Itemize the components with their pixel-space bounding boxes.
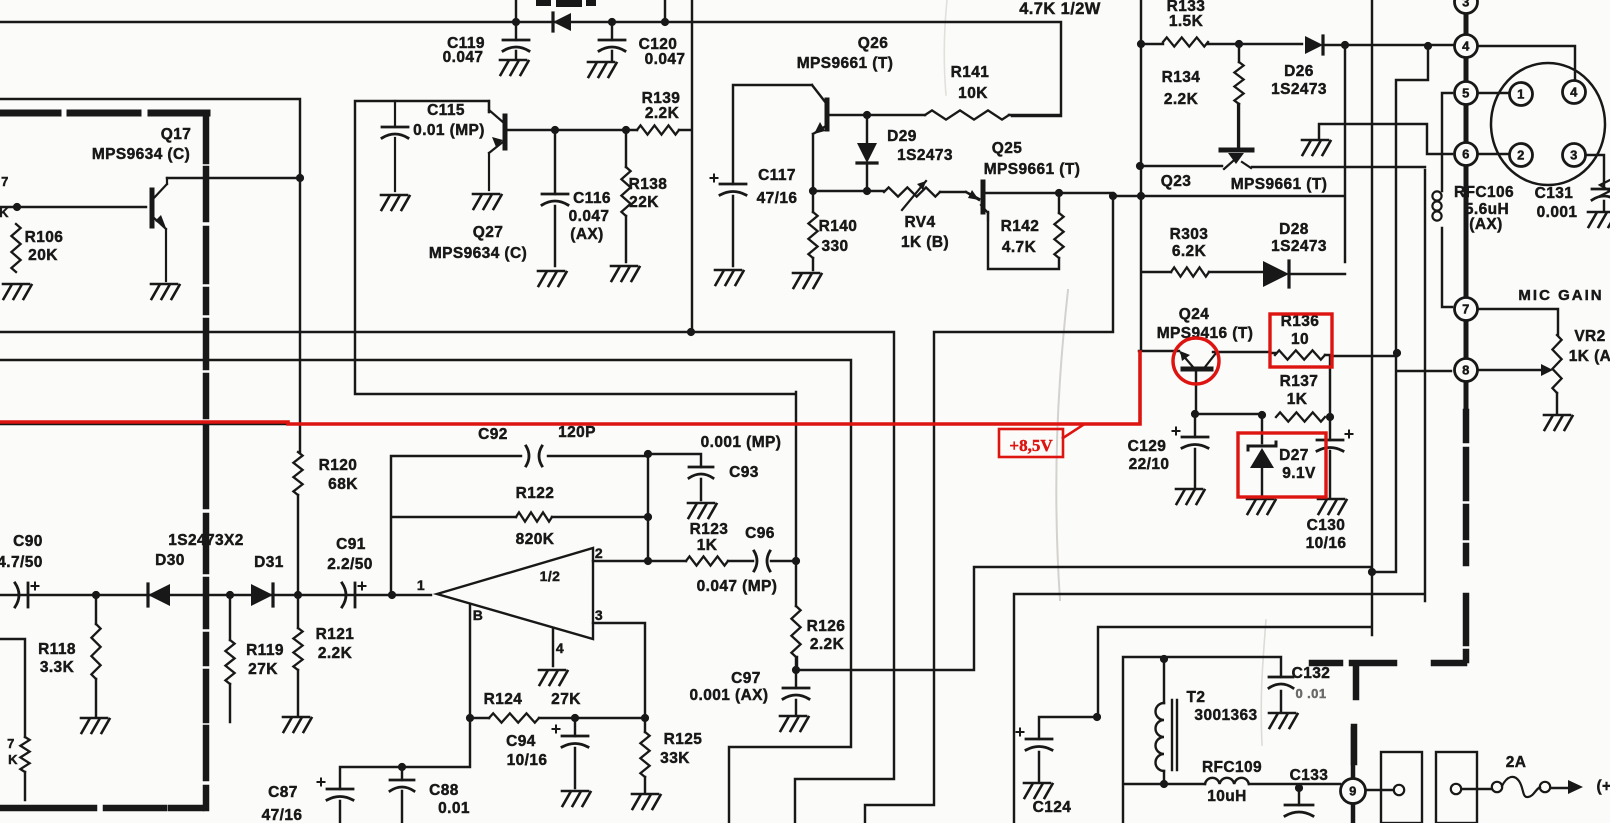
svg-text:2A: 2A (1506, 754, 1527, 771)
svg-text:Q27: Q27 (473, 224, 504, 241)
svg-text:0.047 (MP): 0.047 (MP) (697, 578, 778, 595)
svg-text:1K: 1K (697, 537, 718, 554)
svg-text:1.5K: 1.5K (1169, 13, 1204, 30)
svg-text:D28: D28 (1279, 221, 1309, 238)
svg-text:R140: R140 (819, 218, 858, 235)
svg-text:C91: C91 (336, 536, 366, 553)
svg-text:R141: R141 (951, 64, 990, 81)
svg-text:R134: R134 (1162, 69, 1201, 86)
svg-text:3: 3 (1570, 148, 1578, 163)
svg-text:RFC109: RFC109 (1202, 759, 1262, 776)
svg-text:D30: D30 (155, 552, 185, 569)
svg-text:Q17: Q17 (161, 126, 192, 143)
svg-text:R106: R106 (25, 229, 64, 246)
svg-text:6.2K: 6.2K (1172, 243, 1207, 260)
svg-text:Q25: Q25 (992, 140, 1023, 157)
svg-text:2.2K: 2.2K (645, 105, 680, 122)
svg-text:10/16: 10/16 (1306, 535, 1347, 552)
svg-text:R118: R118 (38, 641, 76, 658)
svg-text:7: 7 (7, 736, 15, 751)
svg-text:0.001 (AX): 0.001 (AX) (690, 687, 769, 704)
svg-text:R123: R123 (690, 521, 729, 538)
svg-text:R124: R124 (484, 691, 523, 708)
svg-text:C88: C88 (429, 782, 459, 799)
svg-text:C115: C115 (427, 102, 465, 119)
svg-text:0 .01: 0 .01 (1296, 686, 1327, 701)
svg-text:47/16: 47/16 (757, 190, 798, 207)
svg-text:D27: D27 (1279, 447, 1309, 464)
svg-text:K: K (0, 205, 9, 220)
svg-text:1: 1 (417, 577, 425, 593)
svg-text:47/16: 47/16 (262, 807, 303, 823)
svg-text:C117: C117 (758, 167, 796, 184)
svg-text:6: 6 (1462, 147, 1470, 162)
svg-text:1/2: 1/2 (540, 568, 561, 584)
svg-text:C90: C90 (13, 533, 43, 550)
svg-text:2.2K: 2.2K (1164, 91, 1199, 108)
svg-text:MPS9661 (T): MPS9661 (T) (797, 55, 894, 72)
svg-text:1K (B): 1K (B) (901, 234, 949, 251)
svg-text:R137: R137 (1280, 373, 1319, 390)
svg-text:4.7K 1/2W: 4.7K 1/2W (1019, 0, 1101, 18)
svg-text:C97: C97 (731, 670, 761, 687)
svg-text:+8,5V: +8,5V (1009, 436, 1053, 455)
svg-text:C132: C132 (1292, 665, 1331, 682)
svg-text:0.047: 0.047 (443, 49, 484, 66)
svg-text:MPS9661 (T): MPS9661 (T) (984, 161, 1081, 178)
svg-text:MPS9661 (T): MPS9661 (T) (1231, 176, 1328, 193)
svg-text:3: 3 (1462, 0, 1470, 10)
svg-text:68K: 68K (328, 476, 358, 493)
svg-text:9: 9 (1349, 784, 1357, 799)
svg-text:1S2473X2: 1S2473X2 (168, 532, 244, 549)
svg-text:9.1V: 9.1V (1282, 465, 1316, 482)
svg-text:10K: 10K (958, 85, 988, 102)
svg-text:(AX): (AX) (1469, 216, 1502, 233)
svg-text:RV4: RV4 (904, 214, 935, 231)
svg-text:27K: 27K (551, 691, 581, 708)
svg-text:D26: D26 (1284, 63, 1314, 80)
svg-text:R126: R126 (807, 618, 846, 635)
svg-text:1S2473: 1S2473 (1271, 238, 1327, 255)
svg-text:MPS9634 (C): MPS9634 (C) (429, 245, 527, 262)
svg-text:Q26: Q26 (858, 35, 889, 52)
svg-text:R122: R122 (516, 485, 555, 502)
svg-text:R125: R125 (664, 731, 703, 748)
svg-text:C87: C87 (268, 784, 298, 801)
svg-text:C93: C93 (729, 464, 759, 481)
svg-text:Q24: Q24 (1179, 306, 1210, 323)
svg-text:0.01 (MP): 0.01 (MP) (413, 122, 485, 139)
svg-text:10: 10 (1291, 331, 1309, 348)
svg-text:3.3K: 3.3K (40, 659, 75, 676)
svg-text:4.7K: 4.7K (1002, 239, 1037, 256)
svg-text:R121: R121 (316, 626, 355, 643)
svg-text:K: K (8, 752, 18, 767)
svg-text:4.7/50: 4.7/50 (0, 554, 43, 571)
svg-text:0.01: 0.01 (438, 800, 470, 817)
svg-text:0.047: 0.047 (569, 208, 610, 225)
svg-text:20K: 20K (28, 247, 58, 264)
svg-text:R142: R142 (1001, 218, 1040, 235)
svg-text:2.2/50: 2.2/50 (327, 556, 373, 573)
svg-text:C116: C116 (573, 190, 611, 207)
svg-text:4: 4 (556, 640, 564, 656)
svg-text:22/10: 22/10 (1129, 456, 1170, 473)
svg-text:D31: D31 (254, 554, 284, 571)
svg-text:0.001 (MP): 0.001 (MP) (701, 434, 782, 451)
svg-text:2: 2 (1517, 148, 1525, 163)
svg-text:C131: C131 (1535, 185, 1574, 202)
svg-text:27K: 27K (248, 661, 278, 678)
svg-text:1K: 1K (1287, 391, 1308, 408)
svg-text:R303: R303 (1170, 226, 1209, 243)
svg-text:C129: C129 (1128, 438, 1167, 455)
svg-text:1K (A: 1K (A (1569, 348, 1610, 365)
svg-text:3: 3 (595, 607, 603, 623)
svg-text:330: 330 (821, 238, 848, 255)
svg-text:820K: 820K (516, 531, 555, 548)
svg-text:C130: C130 (1307, 517, 1346, 534)
svg-text:MIC GAIN: MIC GAIN (1518, 287, 1603, 304)
svg-text:C133: C133 (1290, 767, 1329, 784)
svg-text:7: 7 (1462, 302, 1470, 317)
svg-text:Q23: Q23 (1161, 173, 1192, 190)
svg-text:4: 4 (1462, 39, 1470, 54)
svg-text:120P: 120P (558, 424, 596, 441)
svg-text:0.001: 0.001 (1537, 204, 1578, 221)
svg-text:T2: T2 (1187, 689, 1206, 706)
svg-text:4: 4 (1570, 85, 1578, 100)
svg-text:(AX): (AX) (570, 226, 603, 243)
svg-text:3001363: 3001363 (1194, 707, 1257, 724)
svg-text:R119: R119 (246, 642, 284, 659)
svg-text:D29: D29 (887, 128, 917, 145)
svg-text:1S2473: 1S2473 (1271, 81, 1327, 98)
svg-text:C94: C94 (506, 733, 536, 750)
svg-text:7: 7 (1, 174, 9, 189)
svg-text:1S2473: 1S2473 (897, 147, 953, 164)
svg-text:(+: (+ (1596, 778, 1610, 795)
svg-text:0.047: 0.047 (645, 51, 686, 68)
svg-text:33K: 33K (660, 750, 690, 767)
svg-text:RFC106: RFC106 (1454, 184, 1514, 201)
svg-text:2.2K: 2.2K (810, 636, 845, 653)
svg-text:VR2: VR2 (1574, 328, 1605, 345)
svg-text:MPS9634 (C): MPS9634 (C) (92, 146, 190, 163)
svg-text:C124: C124 (1033, 799, 1072, 816)
svg-text:R138: R138 (629, 176, 668, 193)
svg-text:5: 5 (1462, 86, 1470, 101)
svg-text:R120: R120 (319, 457, 358, 474)
svg-text:2.2K: 2.2K (318, 645, 353, 662)
svg-text:10/16: 10/16 (507, 752, 548, 769)
svg-text:1: 1 (1517, 87, 1525, 102)
svg-text:22K: 22K (629, 194, 659, 211)
svg-text:C92: C92 (478, 426, 508, 443)
svg-text:8: 8 (1462, 363, 1470, 378)
svg-text:B: B (473, 607, 484, 623)
svg-text:C96: C96 (745, 525, 775, 542)
svg-text:2: 2 (595, 545, 603, 561)
svg-text:10uH: 10uH (1207, 788, 1247, 805)
